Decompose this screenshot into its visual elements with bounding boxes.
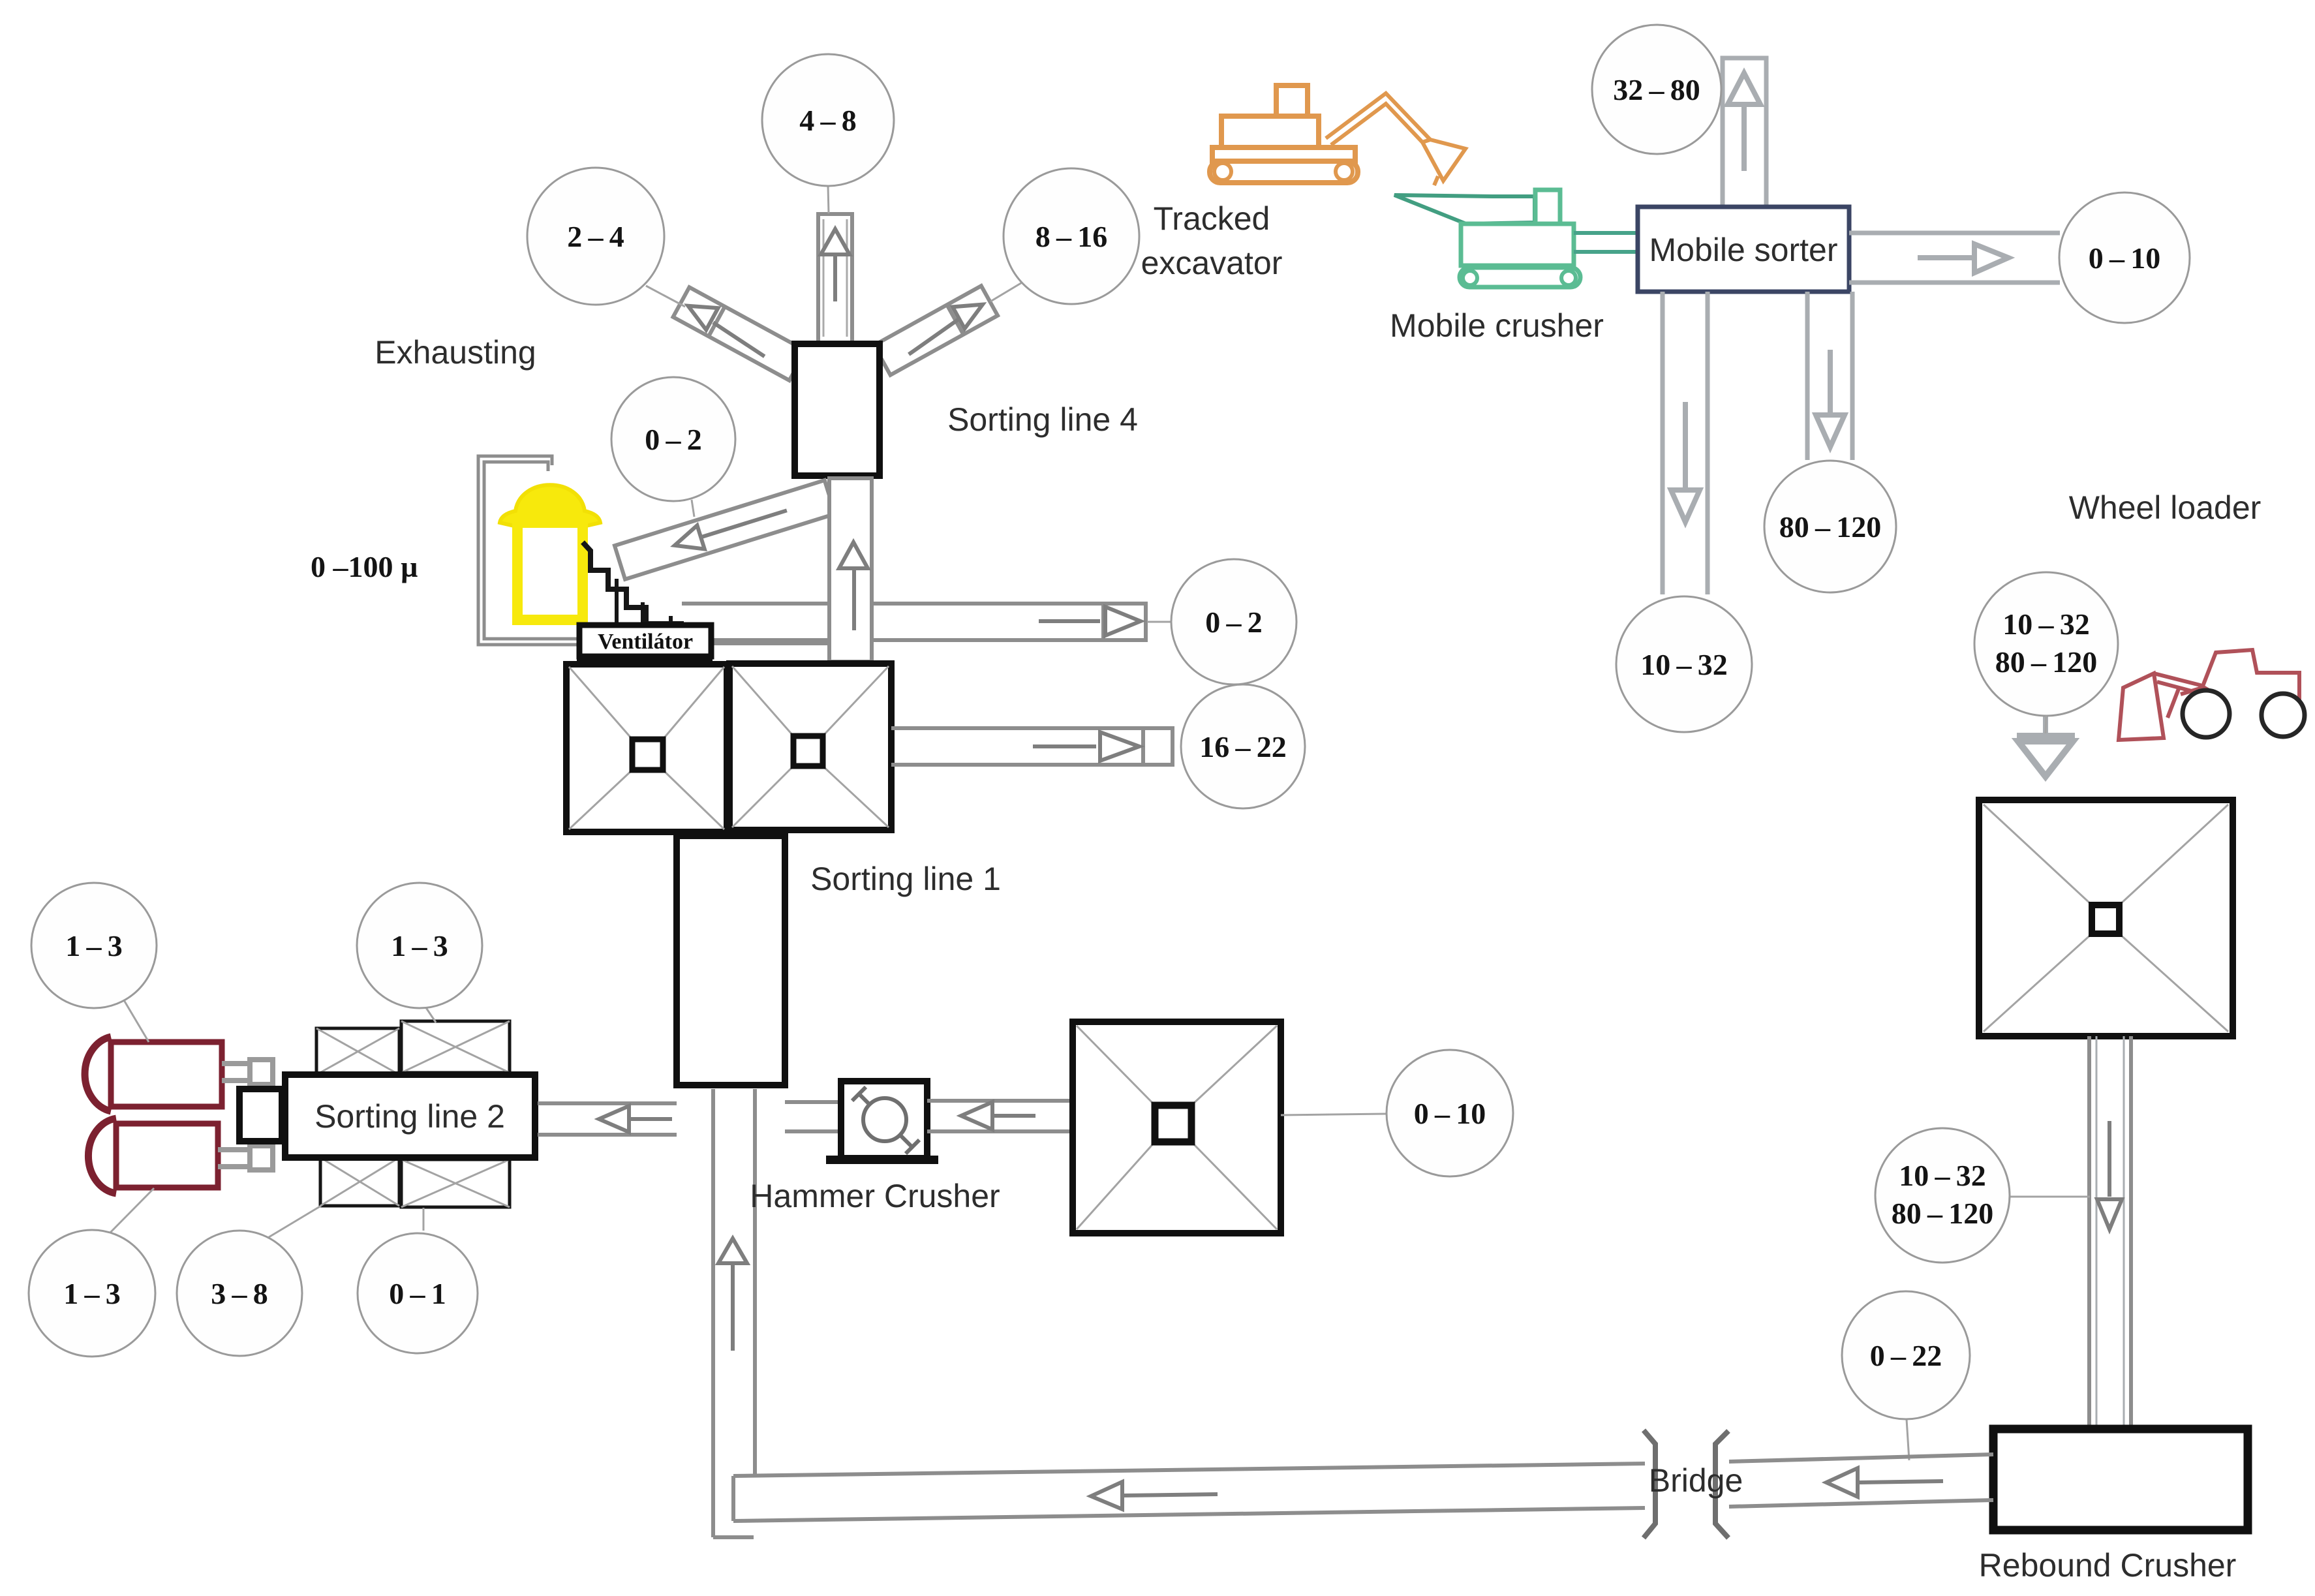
wire: 0-10 hammer circle connector <box>1281 1114 1386 1115</box>
node 0-2 right <box>1171 559 1296 684</box>
node 80-120 <box>1764 461 1896 592</box>
exhaust duct loop <box>478 456 579 645</box>
long conveyor: right segment <box>1729 1454 1993 1507</box>
svg-text:0 – 10: 0 – 10 <box>2089 241 2160 275</box>
tracked excavator icon <box>1210 85 1465 185</box>
svg-text:80 – 120: 80 – 120 <box>1892 1197 1993 1230</box>
conveyor: hopper to hammer crusher <box>927 1101 1073 1131</box>
svg-text:0 – 22: 0 – 22 <box>1870 1339 1942 1372</box>
node 32-80 <box>1592 25 1721 154</box>
node 8-16 <box>1004 168 1139 304</box>
wire: 2-4 circle connector <box>646 286 685 307</box>
conveyor: sorter down-left to 10-32 <box>1663 292 1708 594</box>
wire: 10-32/80-120 left circle connector <box>2010 1196 2090 1198</box>
bridge break marks <box>1644 1430 1728 1538</box>
wheel loader wheels <box>2183 690 2230 737</box>
sorting line 2 box <box>285 1075 535 1158</box>
hopper square left (sorting line 1) <box>566 664 727 832</box>
wheel loader icon <box>2119 650 2299 740</box>
svg-text:Ventilátor: Ventilátor <box>598 630 693 654</box>
svg-text:10 – 32: 10 – 32 <box>1899 1159 1985 1192</box>
svg-text:3 – 8: 3 – 8 <box>211 1277 268 1310</box>
wire: 3-8 connector <box>269 1206 321 1237</box>
stairs icon <box>583 542 684 624</box>
svg-text:0 – 2: 0 – 2 <box>645 423 701 456</box>
conveyor: wheel loader square down to rebound crusher <box>2089 1036 2131 1430</box>
node 10-32 80-120 top <box>1974 572 2118 716</box>
wire: crusher to sorter (teal) <box>1574 233 1639 252</box>
svg-text:1 – 3: 1 – 3 <box>63 1277 120 1310</box>
node 10-32 80-120 left <box>1875 1128 2010 1263</box>
wire: 0-2 upper circle connector <box>692 500 694 517</box>
conveyor: horizontal to 0-2 right circle <box>682 602 1146 642</box>
node 1-3 top-left <box>31 883 157 1008</box>
feed box left of sorting line 2 <box>239 1089 282 1141</box>
wire: 4-8 circle connector <box>828 186 829 213</box>
conveyor: vertical below sorting line 4 <box>829 478 872 662</box>
wire: 0-1 connector <box>423 1208 425 1231</box>
conveyor: diagonal to 2-4 circle <box>673 287 806 380</box>
svg-text:2 – 4: 2 – 4 <box>567 220 624 253</box>
silo fitting lower <box>218 1146 273 1170</box>
wire: 10-32 80-120 top connector <box>2046 716 2046 733</box>
svg-text:Exhausting: Exhausting <box>375 334 536 371</box>
svg-text:Tracked: Tracked <box>1154 200 1270 237</box>
svg-text:10 – 32: 10 – 32 <box>2002 607 2089 641</box>
cyclone (yellow) <box>500 485 600 620</box>
svg-text:Hammer Crusher: Hammer Crusher <box>750 1178 1000 1214</box>
node 1-3 bottom <box>29 1230 155 1357</box>
sorting line 1 column <box>677 836 785 1085</box>
X-box bottom-left <box>320 1158 399 1206</box>
svg-text:Mobile sorter: Mobile sorter <box>1649 232 1838 268</box>
hammer crusher <box>826 1081 938 1164</box>
silo upper <box>85 1037 222 1111</box>
wire: 8-16 circle connector <box>990 282 1023 301</box>
svg-text:4 – 8: 4 – 8 <box>799 104 856 137</box>
wire: 0-22 circle connector <box>1907 1419 1909 1460</box>
node 10-32 <box>1616 596 1752 732</box>
svg-text:Bridge: Bridge <box>1649 1462 1743 1499</box>
svg-text:16 – 22: 16 – 22 <box>1199 730 1286 763</box>
hopper square (0-10 feed) <box>1073 1022 1281 1233</box>
conveyor: sorting line 2 to column <box>538 1103 677 1135</box>
svg-text:0 – 10: 0 – 10 <box>1414 1097 1486 1130</box>
svg-text:Wheel loader: Wheel loader <box>2069 489 2261 526</box>
duct from ventilator to conveyors <box>711 641 830 645</box>
svg-text:Rebound Crusher: Rebound Crusher <box>1979 1547 2237 1584</box>
duct below sorting line 1 <box>713 1089 755 1537</box>
svg-text:1 – 3: 1 – 3 <box>391 929 448 962</box>
svg-text:0 – 2: 0 – 2 <box>1205 606 1262 639</box>
svg-text:80 – 120: 80 – 120 <box>1995 645 2097 679</box>
conveyor: vertical to 4-8 circle <box>818 214 852 343</box>
svg-text:1 – 3: 1 – 3 <box>65 929 122 962</box>
silo lower <box>88 1118 218 1193</box>
conveyor: to 16-22 circle <box>891 726 1173 767</box>
conveyor: sloped to 0-2 upper circle <box>615 480 835 579</box>
conveyor: diagonal to 8-16 circle <box>874 286 998 375</box>
ventilator box <box>577 625 713 663</box>
wire: 1-3 top-mid connector <box>425 1007 436 1022</box>
svg-text:excavator: excavator <box>1141 245 1283 281</box>
mobile crusher icon <box>1394 190 1580 287</box>
node 0-10 sorter <box>2059 192 2190 323</box>
X-box bottom-right <box>401 1159 510 1207</box>
X-box top-right <box>401 1021 510 1073</box>
node 1-3 top-mid <box>357 883 482 1008</box>
silo fitting upper <box>222 1060 273 1084</box>
mobile sorter box <box>1638 207 1849 292</box>
node 16-22 <box>1181 684 1305 808</box>
node 0-10 hammer <box>1387 1050 1513 1176</box>
wire: 1-3 bottom connector <box>108 1188 154 1235</box>
wire: 1-3 top-left connector <box>124 1000 149 1042</box>
conveyor: column to hammer crusher <box>785 1102 841 1131</box>
node 0-22 <box>1842 1291 1970 1419</box>
svg-text:0 – 1: 0 – 1 <box>389 1277 446 1310</box>
funnel arrow into wheel loader square <box>2017 716 2075 776</box>
node 3-8 <box>177 1231 302 1356</box>
svg-text:32 – 80: 32 – 80 <box>1613 73 1700 106</box>
conveyor: sorter down-right to 80-120 <box>1807 292 1852 460</box>
wire: 0-2 right circle connector <box>1147 621 1171 623</box>
node 0-2 upper <box>611 377 735 501</box>
node 2-4 <box>527 168 664 305</box>
svg-text:80 – 120: 80 – 120 <box>1779 510 1881 544</box>
svg-text:Sorting line 1: Sorting line 1 <box>810 861 1001 897</box>
long conveyor: left segment <box>733 1464 1645 1521</box>
svg-text:Mobile crusher: Mobile crusher <box>1390 307 1604 344</box>
node 0-1 <box>358 1233 478 1353</box>
conveyor: sorter up to 32-80 <box>1723 58 1766 207</box>
sorting line 4 box <box>795 344 880 476</box>
rebound crusher box <box>1993 1429 2248 1530</box>
X-box top-left <box>316 1028 399 1075</box>
svg-text:0 –100 µ: 0 –100 µ <box>311 550 418 583</box>
node 4-8 <box>762 54 894 186</box>
conveyor: sorter right to 0-10 <box>1849 233 2060 283</box>
svg-text:Sorting line 2: Sorting line 2 <box>314 1098 505 1135</box>
hopper square right (sorting line 1) <box>729 664 891 830</box>
svg-text:10 – 32: 10 – 32 <box>1640 648 1727 681</box>
svg-text:Sorting line 4: Sorting line 4 <box>947 401 1138 438</box>
wheel loader square <box>1979 800 2233 1036</box>
svg-text:8 – 16: 8 – 16 <box>1035 220 1107 253</box>
